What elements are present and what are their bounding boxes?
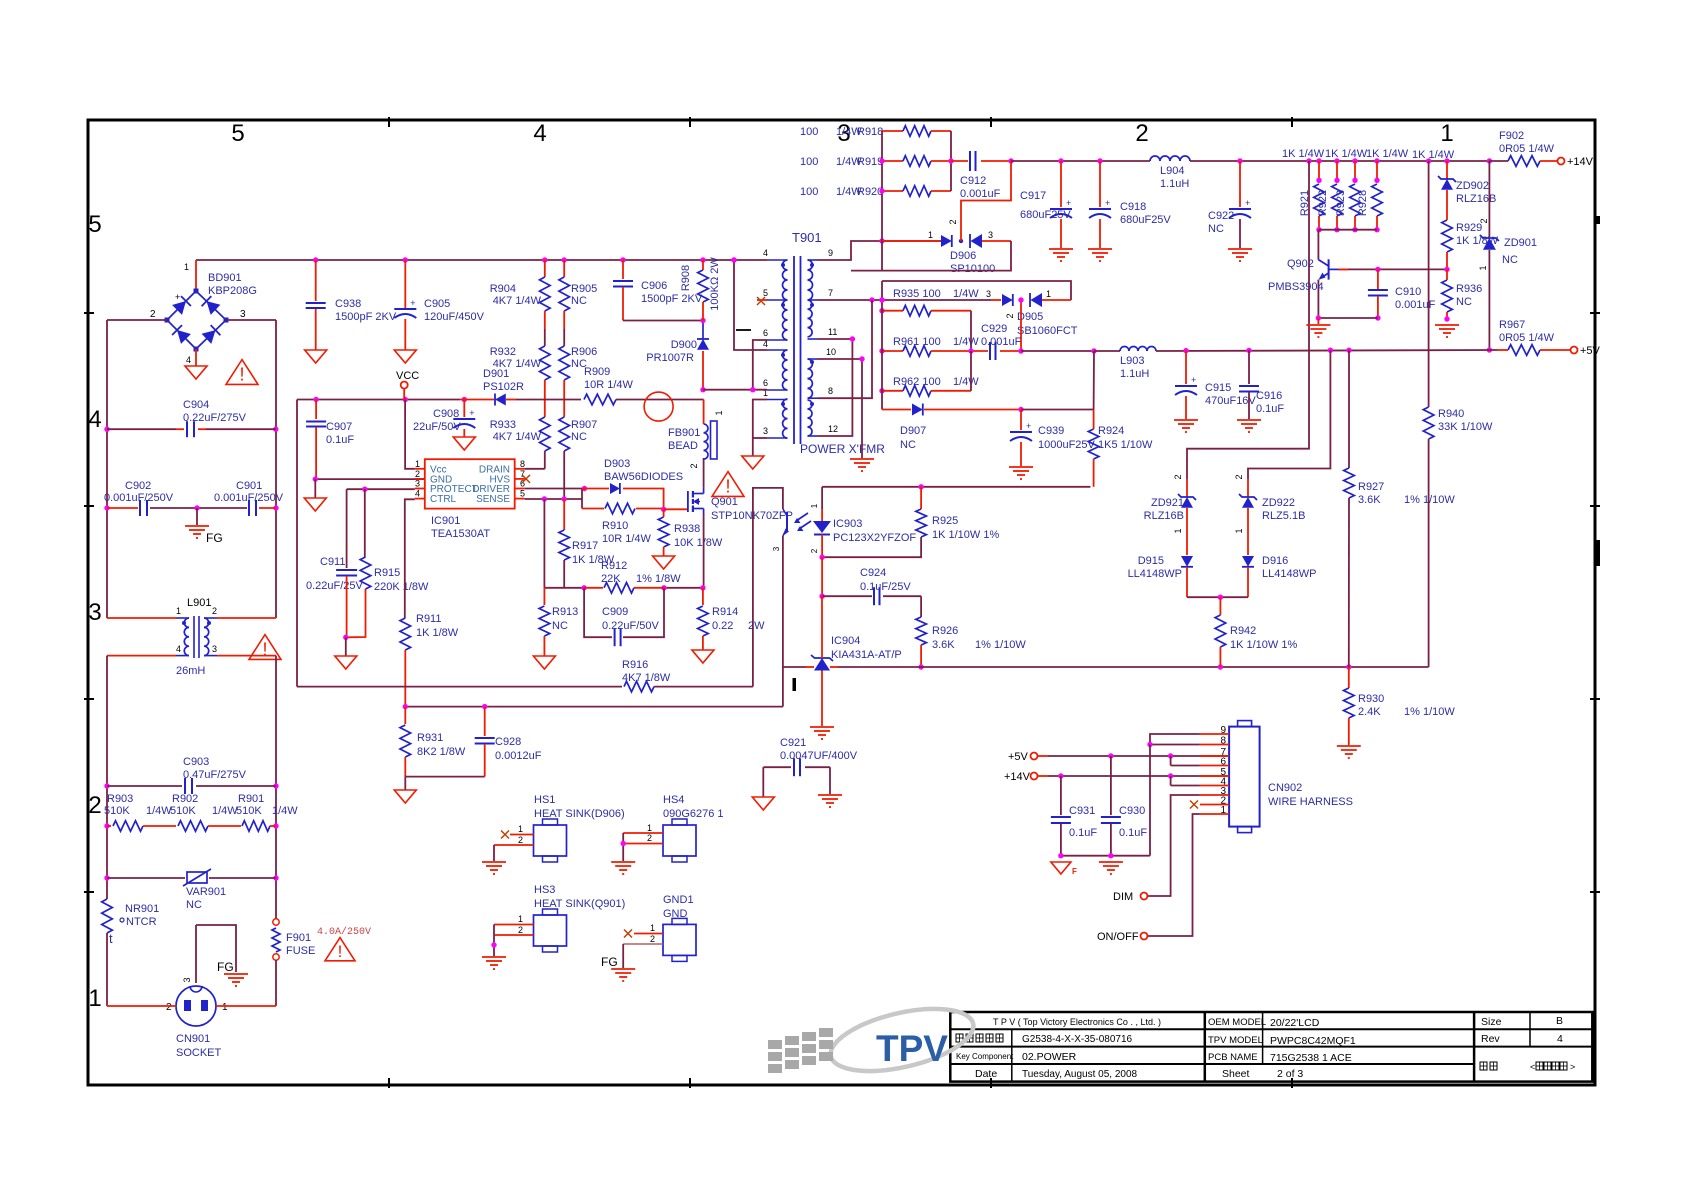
resistor R935 body bbox=[879, 305, 971, 351]
capacitor C911 bbox=[336, 489, 357, 637]
svg-text:HS1: HS1 bbox=[534, 794, 555, 806]
svg-text:TPV MODEL: TPV MODEL bbox=[1208, 1035, 1263, 1046]
svg-text:1/4W: 1/4W bbox=[212, 805, 238, 817]
ground R913 bbox=[533, 656, 555, 669]
label 26mH bbox=[176, 665, 205, 677]
resistor R915 bbox=[343, 489, 371, 640]
ground HS3 bbox=[482, 957, 506, 969]
wire zener bottoms bbox=[1187, 595, 1248, 600]
label GND1 bbox=[663, 894, 694, 920]
svg-text:R940: R940 bbox=[1438, 408, 1464, 420]
ground R938 bbox=[653, 556, 675, 569]
ground C917 bbox=[1049, 249, 1073, 261]
svg-text:1: 1 bbox=[222, 1002, 228, 1013]
net +14V terminal bbox=[1558, 156, 1594, 168]
svg-text:4: 4 bbox=[1557, 1033, 1563, 1045]
resistor R933 bbox=[540, 400, 551, 469]
svg-text:NC: NC bbox=[900, 439, 916, 451]
svg-text:NC: NC bbox=[1456, 296, 1472, 308]
diode D907 bbox=[882, 404, 1094, 416]
svg-text:3: 3 bbox=[763, 426, 768, 436]
wire R918 right rail bbox=[948, 131, 953, 191]
ground R930 bbox=[1337, 746, 1361, 758]
svg-text:+14V: +14V bbox=[1567, 156, 1594, 168]
label C916 bbox=[1256, 390, 1284, 415]
svg-text:4: 4 bbox=[186, 355, 191, 365]
svg-text:R907: R907 bbox=[571, 419, 597, 431]
svg-text:+: + bbox=[1026, 421, 1031, 431]
svg-text:2: 2 bbox=[518, 835, 523, 845]
svg-text:11: 11 bbox=[828, 327, 837, 337]
wire opto collector loop bbox=[753, 488, 783, 687]
wire L901 pin4 bbox=[107, 655, 176, 657]
svg-text:SENSE: SENSE bbox=[476, 494, 510, 505]
svg-text:R926: R926 bbox=[932, 625, 958, 637]
svg-text:R902: R902 bbox=[172, 793, 198, 805]
diode D906 bbox=[882, 234, 1011, 248]
svg-text:NC: NC bbox=[552, 620, 568, 632]
svg-text:R936: R936 bbox=[1456, 283, 1482, 295]
label R916 bbox=[622, 659, 671, 684]
label R932 bbox=[490, 346, 542, 370]
svg-text:6: 6 bbox=[1220, 757, 1226, 768]
svg-text:IC904: IC904 bbox=[831, 635, 860, 647]
label C909 bbox=[602, 606, 660, 632]
wire +5V rail bbox=[1156, 348, 1497, 354]
svg-text:02.POWER: 02.POWER bbox=[1022, 1051, 1077, 1063]
svg-text:D906: D906 bbox=[950, 250, 976, 262]
svg-text:1/4W: 1/4W bbox=[953, 376, 979, 388]
label R915 bbox=[374, 567, 429, 593]
T901 pin numbers right bbox=[826, 248, 838, 434]
capacitor C901 bbox=[194, 500, 276, 516]
svg-text:+: + bbox=[1245, 198, 1250, 208]
svg-text:R911: R911 bbox=[416, 613, 441, 625]
svg-text:0.001uF: 0.001uF bbox=[960, 188, 1001, 200]
title cjk small bbox=[1480, 1062, 1575, 1072]
svg-text:2.4K: 2.4K bbox=[1358, 706, 1381, 718]
label Q901 bbox=[711, 496, 793, 522]
wire opto emitter drop bbox=[782, 536, 784, 707]
wire ground row bbox=[1058, 853, 1150, 858]
fuse F901 bbox=[272, 919, 280, 960]
svg-text:R909: R909 bbox=[584, 366, 610, 378]
svg-text:Rev: Rev bbox=[1481, 1033, 1500, 1045]
diode D901 bbox=[460, 394, 516, 406]
resistor R942 bbox=[1215, 597, 1226, 667]
svg-text:1K 1/8W: 1K 1/8W bbox=[416, 627, 459, 639]
svg-text:C907: C907 bbox=[326, 421, 352, 433]
net ON/OFF bbox=[1097, 931, 1148, 943]
ground C938 bbox=[305, 350, 327, 363]
zener ZD921 bbox=[1173, 479, 1196, 555]
capacitor C928 bbox=[475, 707, 495, 777]
label R905 bbox=[571, 283, 597, 307]
svg-text:D901: D901 bbox=[483, 368, 509, 380]
svg-text:4.0A/250V: 4.0A/250V bbox=[317, 926, 371, 938]
title company bbox=[993, 1017, 1161, 1027]
label R911 bbox=[416, 613, 459, 639]
D906 pin numbers bbox=[928, 219, 993, 240]
label HS4 bbox=[663, 794, 724, 820]
ground T901 primary bbox=[742, 456, 764, 469]
svg-text:2: 2 bbox=[212, 606, 217, 616]
wire BD901 pin2 bbox=[107, 319, 167, 321]
capacitor C904 bbox=[107, 421, 276, 437]
resistor R967 bbox=[1497, 345, 1570, 356]
svg-text:t: t bbox=[109, 931, 113, 946]
svg-text:C929: C929 bbox=[981, 323, 1007, 335]
label D915 bbox=[1128, 555, 1182, 580]
warning triangle 3 bbox=[325, 938, 355, 961]
label R904 bbox=[490, 283, 542, 307]
svg-text:C905: C905 bbox=[424, 298, 450, 310]
label R902 bbox=[170, 793, 238, 817]
wire CN902 pin1 ONOFF bbox=[1148, 814, 1200, 936]
svg-text:6: 6 bbox=[763, 328, 768, 338]
svg-text:C915: C915 bbox=[1205, 382, 1231, 394]
title row3 value bbox=[1022, 1051, 1077, 1063]
svg-text:D916: D916 bbox=[1262, 555, 1288, 567]
resistor R918 bbox=[882, 126, 951, 137]
ground IC904 bbox=[810, 727, 834, 739]
svg-text:C906: C906 bbox=[641, 280, 667, 292]
label R913 bbox=[552, 606, 578, 632]
svg-text:1% 1/8W: 1% 1/8W bbox=[636, 573, 681, 585]
svg-text:RLZ16B: RLZ16B bbox=[1144, 510, 1184, 522]
label C922 bbox=[1208, 210, 1234, 235]
resistor R924 bbox=[1088, 351, 1099, 487]
wire VCC-rail left drop bbox=[296, 400, 298, 687]
resistor R925 bbox=[819, 487, 926, 560]
ground C931 bbox=[1051, 862, 1077, 876]
svg-text:4K7 1/4W: 4K7 1/4W bbox=[493, 431, 542, 443]
svg-text:100: 100 bbox=[800, 186, 818, 198]
svg-text:1: 1 bbox=[650, 923, 655, 933]
resistor R927 bbox=[1344, 350, 1355, 667]
title TPV MODEL bbox=[1208, 1035, 1356, 1047]
svg-text:0.1uF: 0.1uF bbox=[326, 434, 354, 446]
label R907 bbox=[571, 419, 597, 443]
svg-text:2: 2 bbox=[689, 463, 699, 468]
svg-text:680uF25V: 680uF25V bbox=[1120, 214, 1171, 226]
label T901 bbox=[792, 230, 822, 245]
svg-text:Sheet: Sheet bbox=[1222, 1068, 1250, 1080]
title row4 value bbox=[1022, 1069, 1138, 1080]
label C912 bbox=[960, 175, 1001, 200]
resistor R910 bbox=[582, 503, 666, 514]
svg-text:8: 8 bbox=[828, 386, 833, 396]
wire C921 right leg bbox=[829, 767, 831, 794]
svg-text:1: 1 bbox=[1478, 265, 1488, 270]
svg-text:!: ! bbox=[725, 476, 730, 496]
svg-text:Date: Date bbox=[975, 1068, 997, 1080]
svg-text:1K 1/10W 1%: 1K 1/10W 1% bbox=[932, 529, 999, 541]
label 1K bank bbox=[1282, 148, 1455, 161]
title Rev bbox=[1481, 1033, 1563, 1045]
wire R935 box left rail bbox=[879, 297, 884, 409]
label HS1 bbox=[534, 794, 625, 820]
svg-text:HEAT SINK(D906): HEAT SINK(D906) bbox=[534, 808, 625, 820]
label R906 bbox=[571, 346, 597, 370]
svg-text:R903: R903 bbox=[107, 793, 133, 805]
TPV logo bbox=[768, 997, 979, 1082]
ground GND1 FG bbox=[601, 955, 635, 981]
label D903 bbox=[604, 458, 683, 483]
wire fuse to CN901 bbox=[275, 960, 277, 1006]
ground C930 bbox=[1099, 862, 1123, 874]
svg-text:4: 4 bbox=[763, 248, 768, 258]
svg-text:0.0047UF/400V: 0.0047UF/400V bbox=[780, 750, 858, 762]
svg-text:R930: R930 bbox=[1358, 693, 1384, 705]
wire R921 feed ZD chain bbox=[1187, 161, 1309, 479]
svg-text:R938: R938 bbox=[674, 523, 700, 535]
svg-text:R924: R924 bbox=[1098, 425, 1124, 437]
svg-text:CN902: CN902 bbox=[1268, 782, 1302, 794]
label C938 bbox=[335, 298, 397, 323]
svg-text:F: F bbox=[1072, 867, 1077, 876]
svg-text:0.1uF: 0.1uF bbox=[1256, 403, 1284, 415]
wire R-bank bottom bbox=[1319, 229, 1377, 231]
ground C916 bbox=[1237, 420, 1261, 432]
svg-text:100KΩ 2W: 100KΩ 2W bbox=[709, 257, 721, 311]
label R920 bbox=[800, 186, 883, 198]
ground R931 bbox=[394, 777, 416, 803]
bridge rectifier BD901 bbox=[150, 262, 246, 365]
resistor R928 bbox=[1372, 161, 1383, 232]
wire row707 bbox=[403, 704, 783, 709]
svg-text:0.001uF: 0.001uF bbox=[981, 336, 1022, 348]
svg-text:C939: C939 bbox=[1038, 425, 1064, 437]
title PCB NAME bbox=[1208, 1052, 1352, 1064]
ground Q902 bbox=[1306, 318, 1330, 337]
ground C908 bbox=[453, 437, 475, 450]
wire T901 pin1-pin3 bbox=[753, 400, 767, 457]
resistor R913 bbox=[539, 588, 550, 656]
wire IC901 pin1 bbox=[405, 400, 415, 469]
ground C939 bbox=[1009, 467, 1033, 479]
svg-text:GND1: GND1 bbox=[663, 894, 694, 906]
label R919 bbox=[800, 156, 883, 168]
capacitor C910 bbox=[1368, 269, 1388, 320]
svg-text:L901: L901 bbox=[187, 597, 211, 609]
svg-text:0.22: 0.22 bbox=[712, 620, 733, 632]
svg-text:R927: R927 bbox=[1358, 481, 1384, 493]
resistor R903 bbox=[107, 821, 176, 832]
svg-text:C916: C916 bbox=[1256, 390, 1282, 402]
wire right AC rail upper bbox=[273, 320, 279, 618]
label NR901 bbox=[120, 903, 159, 928]
svg-text:R918: R918 bbox=[857, 126, 883, 138]
page border frame bbox=[84, 117, 1600, 1088]
resistor R912 bbox=[584, 583, 664, 594]
wire CN902 pin3 DIM bbox=[1148, 795, 1200, 896]
capacitor C924 bbox=[819, 557, 921, 605]
label ZD901 bbox=[1478, 237, 1537, 271]
label IC903 bbox=[772, 503, 916, 553]
wire CN901 pin3 loop bbox=[196, 925, 236, 983]
capacitor C912 bbox=[951, 151, 1014, 171]
svg-text:9: 9 bbox=[828, 248, 833, 258]
svg-text:C928: C928 bbox=[495, 736, 521, 748]
label C903 bbox=[183, 756, 247, 781]
IC U901 TEA1530AT box bbox=[415, 459, 525, 509]
svg-text:510K: 510K bbox=[236, 805, 262, 817]
svg-text:R908: R908 bbox=[680, 265, 692, 291]
label R921 bbox=[1299, 190, 1311, 216]
resistor R962 bbox=[879, 351, 971, 396]
wire T901 pin11-12 link bbox=[818, 336, 855, 436]
title row4 label bbox=[975, 1068, 997, 1080]
label D901 bbox=[483, 368, 524, 393]
svg-text:C902: C902 bbox=[125, 480, 151, 492]
label C902 bbox=[104, 480, 174, 504]
label R926 bbox=[932, 625, 1026, 651]
svg-text:120uF/450V: 120uF/450V bbox=[424, 311, 485, 323]
wire drain to D900 node bbox=[703, 400, 705, 425]
svg-text:3: 3 bbox=[240, 309, 246, 320]
svg-text:NC: NC bbox=[571, 431, 587, 443]
svg-text:ZD921: ZD921 bbox=[1151, 497, 1184, 509]
svg-text:ZD902: ZD902 bbox=[1456, 180, 1489, 192]
label R924 bbox=[1098, 425, 1153, 451]
wire Q902 base row bbox=[1339, 267, 1447, 272]
label R940 bbox=[1438, 408, 1493, 433]
HS4 pin2 bbox=[621, 833, 664, 861]
resistor R920 bbox=[882, 186, 951, 197]
svg-text:1/4W: 1/4W bbox=[953, 288, 979, 300]
svg-text:D915: D915 bbox=[1138, 555, 1164, 567]
zener ZD902 bbox=[1438, 161, 1456, 220]
svg-text:C918: C918 bbox=[1120, 201, 1146, 213]
svg-text:VAR901: VAR901 bbox=[186, 886, 226, 898]
svg-text:PC123X2YFZOF: PC123X2YFZOF bbox=[833, 532, 916, 544]
svg-text:4: 4 bbox=[176, 644, 181, 654]
svg-text:4K7 1/4W: 4K7 1/4W bbox=[493, 295, 542, 307]
transformer T901 symbol bbox=[767, 256, 818, 444]
wire IC901 pin5 SENSE bbox=[525, 496, 582, 501]
wire D905 top rail bbox=[882, 281, 1071, 300]
zone labels top bbox=[231, 120, 1453, 147]
svg-text:!: ! bbox=[239, 364, 244, 384]
resistor R906 bbox=[559, 329, 570, 400]
MOSFET Q901 bbox=[688, 488, 704, 514]
capacitor C905 bbox=[394, 260, 416, 350]
svg-text:1: 1 bbox=[1046, 289, 1051, 299]
svg-text:10K 1/8W: 10K 1/8W bbox=[674, 537, 723, 549]
svg-text:1: 1 bbox=[1440, 120, 1453, 147]
svg-text:T P V ( Top Victory El: T P V ( Top Victory Electronics Co . , L… bbox=[993, 1017, 1161, 1027]
svg-text:R904: R904 bbox=[490, 283, 516, 295]
label R933 bbox=[490, 419, 542, 443]
svg-text:1K5 1/10W: 1K5 1/10W bbox=[1098, 439, 1153, 451]
svg-text:Tuesday, August 05, 2008: Tuesday, August 05, 2008 bbox=[1022, 1069, 1138, 1080]
svg-text:ZD922: ZD922 bbox=[1262, 497, 1295, 509]
svg-text:0.0012uF: 0.0012uF bbox=[495, 750, 542, 762]
black dash mark bbox=[736, 329, 751, 331]
svg-text:ZD901: ZD901 bbox=[1504, 237, 1537, 249]
resistor R911 bbox=[400, 550, 411, 706]
svg-text:26mH: 26mH bbox=[176, 665, 205, 677]
svg-text:KBP208G: KBP208G bbox=[208, 285, 257, 297]
resistor R917 bbox=[559, 499, 570, 560]
wire IC903 pin1 drop bbox=[821, 487, 823, 509]
svg-text:1: 1 bbox=[1173, 528, 1183, 533]
svg-text:1K 1/4W: 1K 1/4W bbox=[1282, 148, 1325, 160]
label FB901 bbox=[668, 427, 700, 452]
svg-text:3.6K: 3.6K bbox=[1358, 494, 1381, 506]
svg-text:2: 2 bbox=[647, 833, 652, 843]
label C908 bbox=[413, 408, 461, 433]
svg-text:FG: FG bbox=[217, 960, 234, 974]
svg-text:+: + bbox=[410, 298, 415, 308]
resistor R919 bbox=[882, 156, 951, 167]
warning triangle 1 bbox=[226, 360, 258, 385]
net +5V terminal bbox=[1571, 345, 1601, 357]
svg-text:C917: C917 bbox=[1020, 190, 1046, 202]
svg-text:+: + bbox=[1066, 198, 1071, 208]
svg-text:C931: C931 bbox=[1069, 805, 1095, 817]
svg-text:3: 3 bbox=[772, 546, 781, 551]
wire L901 pin1 bbox=[107, 617, 176, 619]
svg-text:1: 1 bbox=[1220, 805, 1226, 816]
resistor R921 bbox=[1314, 161, 1325, 232]
svg-text:1% 1/10W: 1% 1/10W bbox=[1404, 494, 1455, 506]
svg-text:HS4: HS4 bbox=[663, 794, 684, 806]
capacitor C908 bbox=[453, 400, 475, 438]
resistor R902 bbox=[178, 821, 241, 832]
svg-text:1: 1 bbox=[518, 824, 523, 834]
node D900-T901 junction bbox=[700, 387, 753, 392]
svg-text:+: + bbox=[1105, 198, 1110, 208]
heat sink HS3 bbox=[534, 909, 567, 952]
label R909 bbox=[584, 366, 634, 391]
wire gate bbox=[664, 508, 688, 510]
ferrite bead FB901 bbox=[689, 410, 724, 468]
svg-text:FG: FG bbox=[601, 955, 618, 969]
svg-text:<: < bbox=[1530, 1062, 1535, 1072]
resistor R929 bbox=[1442, 220, 1453, 272]
label R917 bbox=[572, 540, 615, 566]
svg-text:4: 4 bbox=[88, 406, 101, 433]
svg-text:C910: C910 bbox=[1395, 286, 1421, 298]
resistor R904 bbox=[540, 260, 551, 329]
svg-text:FUSE: FUSE bbox=[286, 945, 315, 957]
svg-text:T901: T901 bbox=[792, 230, 822, 245]
capacitor C903 bbox=[107, 778, 276, 794]
wire left AC rail lower bbox=[104, 656, 109, 899]
svg-text:STP10NK70ZFP: STP10NK70ZFP bbox=[711, 510, 793, 522]
label C910 bbox=[1395, 286, 1436, 311]
label C907 bbox=[326, 421, 354, 446]
svg-text:510K: 510K bbox=[170, 805, 196, 817]
label F902 bbox=[1499, 130, 1555, 155]
label HS3 bbox=[534, 884, 625, 910]
svg-text:R906: R906 bbox=[571, 346, 597, 358]
label ZD902 bbox=[1456, 180, 1496, 205]
svg-text:R917: R917 bbox=[572, 540, 598, 552]
svg-text:5: 5 bbox=[763, 288, 768, 298]
zener ZD901 bbox=[1480, 161, 1499, 353]
wire IC901 pin6 DRIVER bbox=[525, 486, 588, 491]
resistor R901 bbox=[242, 821, 276, 832]
ground C915 bbox=[1174, 420, 1198, 432]
svg-text:0R05 1/4W: 0R05 1/4W bbox=[1499, 332, 1555, 344]
wire T901 pin10 ground bbox=[818, 356, 865, 458]
zone labels left bbox=[88, 211, 101, 1012]
label C905 bbox=[424, 298, 485, 323]
wire BD901 pin4 stub bbox=[195, 349, 197, 366]
